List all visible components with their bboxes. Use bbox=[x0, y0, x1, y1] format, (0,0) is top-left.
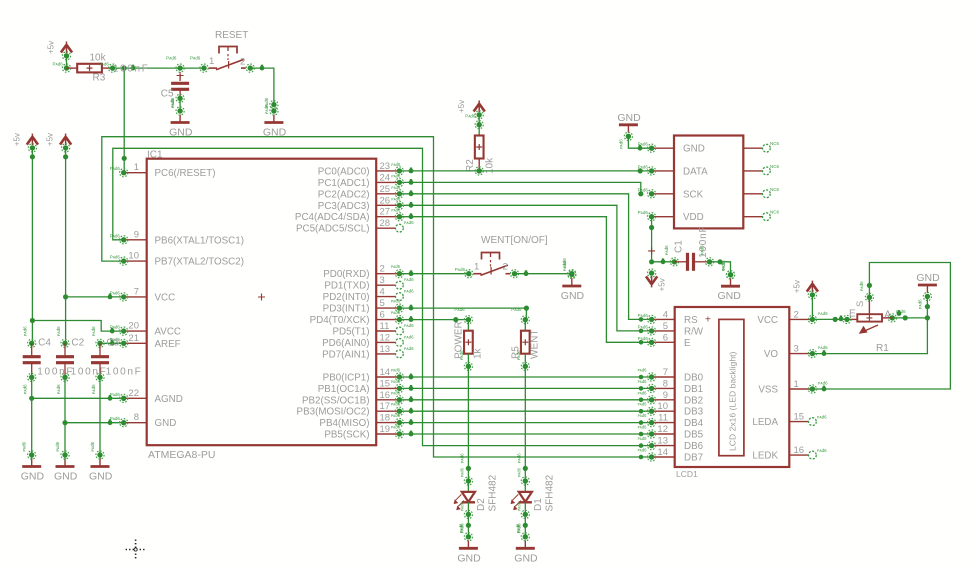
node MCU PB pin bbox=[391, 425, 404, 439]
LCD1 pin 4 RS bbox=[652, 309, 698, 326]
svg-text:24: 24 bbox=[380, 172, 391, 183]
svg-text:15: 15 bbox=[380, 378, 391, 389]
wire PD4 to R4 bbox=[399, 316, 468, 322]
LCD1 pin 3 VO bbox=[764, 344, 813, 361]
svg-text:Pᴀd6: Pᴀd6 bbox=[455, 267, 466, 272]
wire R5 to D1 bbox=[524, 366, 526, 468]
svg-text:PB0(ICP1): PB0(ICP1) bbox=[323, 373, 370, 384]
node LCD DB2 pin bbox=[638, 390, 656, 404]
node GND pin bbox=[110, 416, 128, 427]
svg-text:1k: 1k bbox=[473, 347, 484, 359]
svg-text:10: 10 bbox=[657, 401, 668, 412]
svg-text:PB2(SS/OC1B): PB2(SS/OC1B) bbox=[302, 395, 370, 406]
svg-text:ᴘᴀd6: ᴘᴀd6 bbox=[664, 245, 669, 255]
node PC6 pin bbox=[110, 166, 128, 177]
IC1 pin 21 AREF bbox=[124, 333, 181, 350]
node wire end bbox=[264, 101, 278, 115]
wire PB to LCD DB1 bbox=[399, 385, 651, 391]
IC1 pin 12 PD6(AIN0) bbox=[322, 332, 399, 349]
LCD1 pin 6 E bbox=[652, 332, 691, 349]
resistor R3 10k bbox=[67, 53, 112, 84]
svg-text:ᴘᴀd6: ᴘᴀd6 bbox=[391, 185, 401, 190]
svg-text:S: S bbox=[855, 301, 866, 307]
svg-text:5: 5 bbox=[380, 298, 385, 309]
svg-text:1: 1 bbox=[474, 262, 479, 273]
svg-text:23: 23 bbox=[380, 161, 391, 172]
node C3 top pin bbox=[91, 326, 104, 347]
svg-text:AVCC: AVCC bbox=[155, 327, 182, 338]
svg-text:ᴘᴀd6: ᴘᴀd6 bbox=[404, 220, 414, 225]
wire C2 column down bbox=[62, 377, 67, 459]
node MCU PB pin bbox=[391, 413, 404, 427]
svg-text:ᴘᴀd6: ᴘᴀd6 bbox=[817, 448, 827, 453]
svg-text:ᴘᴀd6: ᴘᴀd6 bbox=[638, 413, 648, 418]
svg-text:PD0(RXD): PD0(RXD) bbox=[323, 269, 369, 280]
svg-text:7: 7 bbox=[663, 367, 668, 378]
IC1 pin 11 PD5(T1) bbox=[332, 321, 399, 338]
ground below C1 bbox=[718, 261, 742, 302]
sensor connector body (SHT humidity sensor header) bbox=[674, 136, 743, 229]
svg-text:RS: RS bbox=[684, 315, 698, 326]
node C5 top bbox=[166, 56, 184, 73]
svg-text:9: 9 bbox=[134, 229, 139, 240]
svg-text:GND: GND bbox=[155, 418, 177, 429]
IC1 pin 20 AVCC bbox=[124, 321, 181, 338]
wire VCC to trimmer E bbox=[812, 316, 857, 323]
svg-text:1: 1 bbox=[134, 162, 139, 173]
node LCD DB1 pin bbox=[638, 379, 656, 393]
node sensor VDD pin bbox=[638, 210, 656, 221]
LCD1 pin 13 DB6 bbox=[652, 436, 704, 453]
svg-text:ᴘᴀd6: ᴘᴀd6 bbox=[459, 453, 464, 463]
node R2 bottom pin bbox=[475, 167, 483, 175]
trimmer R1 bbox=[855, 297, 891, 354]
svg-text:Pᴀd6: Pᴀd6 bbox=[511, 307, 522, 312]
IC1 pin 26 PC3(ADC3) bbox=[318, 195, 400, 212]
svg-text:11: 11 bbox=[380, 321, 390, 332]
svg-text:DB3: DB3 bbox=[684, 407, 704, 418]
node AGND pin bbox=[110, 392, 128, 403]
svg-text:ᴘᴀd6: ᴘᴀd6 bbox=[818, 345, 828, 350]
svg-text:PB6(XTAL1/TOSC1): PB6(XTAL1/TOSC1) bbox=[155, 235, 244, 246]
node AREF pin bbox=[110, 337, 128, 348]
svg-text:DATA: DATA bbox=[683, 166, 708, 177]
svg-text:ᴘᴀd6: ᴘᴀd6 bbox=[55, 441, 60, 451]
node VCC pin bbox=[110, 290, 128, 301]
svg-text:ᴘᴀd6: ᴘᴀd6 bbox=[23, 326, 28, 336]
ground below C5 bbox=[169, 97, 193, 138]
svg-text:AREF: AREF bbox=[155, 339, 181, 350]
svg-text:ᴘᴀd6: ᴘᴀd6 bbox=[90, 441, 95, 451]
IC1 pin 2 PD0(RXD) bbox=[323, 264, 399, 281]
svg-text:ᴘᴀd6: ᴘᴀd6 bbox=[459, 350, 464, 360]
svg-text:PB4(MISO): PB4(MISO) bbox=[319, 418, 369, 429]
svg-text:GND: GND bbox=[718, 290, 742, 302]
+5V supply symbol (R2) bbox=[457, 100, 485, 119]
svg-text:ᴘᴀd6: ᴘᴀd6 bbox=[23, 384, 28, 394]
LCD1 pin 12 DB5 bbox=[652, 424, 704, 441]
+5V supply symbol (R3) bbox=[47, 41, 73, 60]
svg-text:NC6: NC6 bbox=[770, 210, 779, 215]
LCD1 pin 14 DB7 bbox=[652, 447, 703, 464]
svg-text:LCD 2x16 (LED backlight): LCD 2x16 (LED backlight) bbox=[728, 352, 738, 451]
IC1 pin 5 PD3(INT1) bbox=[323, 298, 400, 315]
node LCD DB7 pin bbox=[638, 448, 656, 462]
resistor R2 10k bbox=[465, 136, 496, 175]
wire +5v rail A bbox=[30, 148, 35, 344]
IC1 pin 8 GND bbox=[124, 412, 177, 429]
svg-text:SFH482: SFH482 bbox=[487, 474, 498, 511]
wire PB to LCD DB5 bbox=[399, 431, 651, 437]
wire VCC tap bbox=[66, 294, 124, 300]
svg-text:ᴘᴀd6: ᴘᴀd6 bbox=[459, 467, 464, 477]
node LCD LEDA NC bbox=[809, 415, 828, 426]
svg-text:VO: VO bbox=[764, 349, 779, 360]
svg-text:ᴘᴀd6: ᴘᴀd6 bbox=[859, 281, 864, 291]
svg-text:C5: C5 bbox=[161, 89, 174, 100]
IC1 pin 3 PD1(TXD) bbox=[324, 275, 399, 292]
svg-text:E: E bbox=[684, 338, 691, 349]
svg-text:11: 11 bbox=[658, 413, 668, 424]
node trimmer A pin bbox=[888, 309, 906, 322]
resistor R4 POWER 1k bbox=[454, 307, 484, 366]
node LCD DB5 pin bbox=[638, 425, 656, 439]
+5V supply symbol (rail B) bbox=[46, 133, 72, 152]
svg-text:VSS: VSS bbox=[758, 385, 778, 396]
IC1 pin 6 PD4(T0/XCK) bbox=[310, 310, 400, 327]
svg-text:1: 1 bbox=[209, 56, 214, 67]
svg-text:ᴘᴀd6: ᴘᴀd6 bbox=[404, 289, 414, 294]
svg-text:+5v: +5v bbox=[457, 100, 466, 113]
junction AVCC tap bbox=[30, 318, 35, 323]
node C2 bottom pin bbox=[56, 373, 69, 394]
svg-text:ᴘᴀd6: ᴘᴀd6 bbox=[721, 261, 726, 271]
IC1 pin 24 PC1(ADC1) bbox=[318, 172, 400, 189]
node C2 top pin bbox=[56, 326, 69, 347]
wire PC3 to LCD R/W bbox=[399, 202, 651, 331]
svg-text:ᴘᴀd6: ᴘᴀd6 bbox=[391, 162, 401, 167]
svg-text:ᴘᴀd6: ᴘᴀd6 bbox=[917, 299, 922, 309]
svg-text:26: 26 bbox=[380, 195, 391, 206]
sensor pin VDD NC stub bbox=[743, 210, 779, 221]
sensor pin SCK bbox=[652, 189, 704, 200]
svg-text:PB1(OC1A): PB1(OC1A) bbox=[318, 384, 370, 395]
svg-text:ᴘᴀd6: ᴘᴀd6 bbox=[638, 425, 648, 430]
svg-text:GND: GND bbox=[617, 112, 641, 124]
IC1 pin 4 PD2(INT0) bbox=[323, 287, 400, 304]
node PD1 NC bbox=[396, 277, 415, 289]
svg-text:SFH482: SFH482 bbox=[544, 474, 555, 511]
node trimmer S pin bbox=[859, 281, 874, 301]
svg-text:ᴘᴀd6: ᴘᴀd6 bbox=[391, 379, 401, 384]
svg-text:GND: GND bbox=[916, 272, 940, 284]
wire PC2 to LCD RS bbox=[399, 190, 651, 319]
svg-text:21: 21 bbox=[128, 333, 139, 344]
svg-text:ᴘᴀd6: ᴘᴀd6 bbox=[404, 346, 414, 351]
node LCD VCC pin bbox=[808, 311, 828, 324]
node PD2 NC bbox=[396, 289, 415, 301]
ground below C2 bbox=[54, 441, 78, 482]
wire VDD down bbox=[648, 217, 655, 262]
svg-text:100nF: 100nF bbox=[113, 63, 150, 74]
svg-text:Pᴀd6: Pᴀd6 bbox=[110, 325, 121, 330]
wire GND row bbox=[65, 419, 124, 425]
junction VDD/C1/+5v bbox=[649, 259, 654, 264]
wire PB to LCD DB2 bbox=[399, 396, 651, 402]
node WENT pin 2 bbox=[510, 270, 528, 278]
svg-text:PC2(ADC2): PC2(ADC2) bbox=[318, 189, 370, 200]
+5V supply symbol (LCD VCC) bbox=[792, 280, 818, 299]
svg-text:2: 2 bbox=[503, 262, 508, 273]
capacitor C5 100nF bbox=[113, 63, 189, 99]
wire R4 to D2 bbox=[467, 366, 469, 468]
svg-text:DB6: DB6 bbox=[684, 441, 704, 452]
svg-text:ᴘᴀd6: ᴘᴀd6 bbox=[516, 453, 521, 463]
svg-text:19: 19 bbox=[380, 424, 391, 435]
svg-text:4: 4 bbox=[380, 287, 385, 298]
svg-text:PC5(ADC5/SCL): PC5(ADC5/SCL) bbox=[296, 224, 370, 235]
svg-text:PD3(INT1): PD3(INT1) bbox=[323, 304, 370, 315]
ground below WENT bbox=[561, 261, 585, 302]
node R3 left pin bbox=[53, 62, 71, 73]
svg-text:R1: R1 bbox=[876, 343, 889, 354]
ground below D2 bbox=[457, 523, 481, 564]
svg-text:14: 14 bbox=[657, 447, 668, 458]
wire PB to LCD DB3 bbox=[399, 408, 651, 414]
node sensor DATA pin bbox=[638, 164, 656, 175]
node LCD DB0 pin bbox=[638, 368, 656, 382]
node trimmer E pin bbox=[843, 309, 856, 324]
svg-text:+5v: +5v bbox=[658, 278, 667, 291]
switch S2 WENT[ON/OF] bbox=[473, 235, 548, 275]
node MCU pin circle bbox=[391, 185, 403, 198]
IC1 pin 1 PC6(/RESET) bbox=[124, 162, 216, 179]
svg-text:ᴘᴀd6: ᴘᴀd6 bbox=[638, 402, 648, 407]
svg-text:DB0: DB0 bbox=[684, 373, 704, 384]
wire AVCC tap bbox=[32, 321, 123, 334]
node MCU PB pin bbox=[391, 368, 404, 382]
node R3 right pin bbox=[99, 62, 117, 73]
svg-text:GND: GND bbox=[54, 471, 78, 483]
svg-text:+5v: +5v bbox=[12, 133, 21, 146]
wire VO to junction bbox=[812, 318, 927, 356]
IC1 pin 9 PB6(XTAL1/TOSC1) bbox=[124, 229, 244, 246]
ground below D1 bbox=[514, 523, 538, 564]
svg-text:NC6: NC6 bbox=[770, 164, 779, 169]
IC1 pin 10 PB7(XTAL2/TOSC2) bbox=[124, 251, 244, 268]
svg-text:2: 2 bbox=[794, 309, 799, 320]
svg-text:E: E bbox=[849, 309, 856, 320]
svg-text:ᴘᴀd6: ᴘᴀd6 bbox=[391, 208, 401, 213]
svg-text:ᴘᴀd6: ᴘᴀd6 bbox=[391, 425, 401, 430]
svg-text:ᴘᴀd6: ᴘᴀd6 bbox=[391, 173, 401, 178]
svg-text:Pᴀd6: Pᴀd6 bbox=[110, 290, 121, 295]
svg-text:3: 3 bbox=[794, 344, 799, 355]
wire PC4 to LCD E bbox=[399, 213, 651, 342]
svg-text:2: 2 bbox=[240, 57, 245, 68]
svg-text:Pᴀd6: Pᴀd6 bbox=[110, 255, 121, 260]
svg-text:PD1(TXD): PD1(TXD) bbox=[324, 281, 369, 292]
svg-text:17: 17 bbox=[380, 401, 391, 412]
switch S1 RESET bbox=[209, 30, 249, 70]
wire PC6 vertical bbox=[123, 68, 125, 173]
svg-text:ᴘᴀd6: ᴘᴀd6 bbox=[264, 97, 269, 107]
svg-text:ᴘᴀd6: ᴘᴀd6 bbox=[638, 390, 648, 395]
origin cross mark bbox=[126, 540, 146, 560]
svg-text:LCD1: LCD1 bbox=[676, 469, 698, 479]
node MCU pin circle bbox=[391, 162, 403, 175]
svg-text:ᴘᴀd6: ᴘᴀd6 bbox=[391, 310, 401, 315]
node R5 bottom pin bbox=[516, 350, 529, 370]
node LCD DB3 pin bbox=[638, 402, 656, 416]
svg-text:ᴘᴀd6: ᴘᴀd6 bbox=[170, 97, 175, 107]
node LCD RS pin bbox=[638, 313, 656, 324]
svg-text:ᴘᴀd6: ᴘᴀd6 bbox=[404, 334, 414, 339]
svg-text:ᴘᴀd6: ᴘᴀd6 bbox=[22, 441, 27, 451]
svg-text:ᴘᴀd6: ᴘᴀd6 bbox=[56, 384, 61, 394]
svg-text:13: 13 bbox=[657, 436, 668, 447]
svg-text:ᴘᴀd6: ᴘᴀd6 bbox=[515, 523, 520, 533]
svg-text:ᴘᴀd6: ᴘᴀd6 bbox=[91, 326, 96, 336]
svg-text:DB7: DB7 bbox=[684, 453, 703, 464]
wire RESET pin2 to GND bbox=[250, 68, 274, 105]
LCD1 pin 5 R/W bbox=[652, 321, 704, 338]
node MCU PB pin bbox=[391, 379, 404, 393]
svg-text:16: 16 bbox=[380, 390, 391, 401]
LCD1 pin 10 DB3 bbox=[652, 401, 704, 418]
svg-text:ᴘᴀd6: ᴘᴀd6 bbox=[638, 379, 648, 384]
capacitor C1 100nF bbox=[674, 226, 710, 271]
resistor R5 WENT bbox=[511, 307, 541, 366]
LCD1 pin 16 LEDK bbox=[752, 445, 812, 462]
wire C5 to GND bbox=[179, 98, 181, 110]
svg-text:DB1: DB1 bbox=[684, 384, 703, 395]
svg-text:Pᴀd6: Pᴀd6 bbox=[638, 142, 649, 147]
ground below C3 bbox=[89, 441, 113, 482]
LED D2 SFH482 bbox=[454, 453, 498, 537]
svg-text:Pᴀd6: Pᴀd6 bbox=[638, 187, 649, 192]
wire R3 to RESET net bbox=[112, 65, 205, 71]
wire C1 left bbox=[652, 258, 675, 264]
svg-text:LEDK: LEDK bbox=[752, 451, 778, 462]
node PD4 pin bbox=[391, 310, 404, 324]
svg-text:ᴘᴀd6: ᴘᴀd6 bbox=[700, 245, 705, 255]
node C3 bottom pin bbox=[91, 373, 104, 394]
LCD1 pin 7 DB0 bbox=[652, 367, 704, 384]
node LCD VO pin bbox=[808, 345, 828, 358]
svg-text:WENT[ON/OF]: WENT[ON/OF] bbox=[481, 235, 548, 246]
sensor pin DATA NC stub bbox=[743, 164, 779, 175]
svg-text:Pᴀd6: Pᴀd6 bbox=[638, 164, 649, 169]
svg-text:Pᴀd6: Pᴀd6 bbox=[638, 324, 649, 329]
svg-text:ᴘᴀd6: ᴘᴀd6 bbox=[56, 326, 61, 336]
svg-text:GND: GND bbox=[457, 552, 481, 564]
svg-text:Pᴀd6: Pᴀd6 bbox=[166, 56, 177, 61]
node MCU pin circle bbox=[391, 208, 403, 221]
svg-text:GND: GND bbox=[561, 290, 585, 302]
IC1 pin 28 PC5(ADC5/SCL) bbox=[296, 218, 399, 235]
svg-text:PD2(INT0): PD2(INT0) bbox=[323, 292, 370, 303]
svg-text:ᴘᴀd6: ᴘᴀd6 bbox=[391, 299, 401, 304]
svg-text:GND: GND bbox=[514, 552, 538, 564]
svg-text:6: 6 bbox=[380, 310, 385, 321]
wire C1 to GND bbox=[710, 259, 731, 275]
node R4 bottom pin bbox=[459, 350, 473, 370]
svg-text:20: 20 bbox=[128, 321, 139, 332]
svg-text:ᴘᴀd6: ᴘᴀd6 bbox=[91, 384, 96, 394]
node PD3 pin bbox=[391, 299, 404, 313]
svg-text:R/W: R/W bbox=[684, 326, 704, 337]
svg-text:Pᴀd6: Pᴀd6 bbox=[638, 313, 649, 318]
svg-text:+5v: +5v bbox=[47, 41, 56, 54]
wire PD3 to R5 bbox=[399, 305, 529, 320]
wire PC1 to sensor SCK bbox=[399, 179, 643, 196]
sensor pin GND bbox=[652, 144, 705, 155]
ground above sensor bbox=[617, 112, 641, 149]
svg-text:Pᴀd6: Pᴀd6 bbox=[110, 233, 121, 238]
svg-text:Pᴀd6: Pᴀd6 bbox=[110, 392, 121, 397]
node sensor GND pin bbox=[638, 142, 656, 153]
svg-text:VCC: VCC bbox=[155, 292, 176, 303]
node C1 right pin bbox=[700, 245, 714, 266]
svg-text:15: 15 bbox=[794, 412, 805, 423]
LCD1 pin 1 VSS bbox=[758, 379, 812, 396]
IC1 pin 18 PB4(MISO) bbox=[319, 413, 399, 430]
junction R3/PC6 bbox=[122, 66, 127, 71]
svg-text:13: 13 bbox=[380, 344, 391, 355]
node R2 top pin bbox=[465, 114, 483, 129]
svg-text:VDD: VDD bbox=[683, 212, 704, 223]
IC1 pin 23 PC0(ADC0) bbox=[318, 161, 400, 178]
IC1 pin 13 PD7(AIN1) bbox=[322, 344, 399, 361]
svg-text:16: 16 bbox=[794, 445, 805, 456]
svg-text:PD4(T0/XCK): PD4(T0/XCK) bbox=[310, 315, 370, 326]
wire S wiper to VSS bbox=[812, 263, 950, 392]
svg-text:ᴘᴀd6: ᴘᴀd6 bbox=[516, 467, 521, 477]
svg-text:ᴘᴀd6: ᴘᴀd6 bbox=[818, 311, 828, 316]
svg-text:ᴘᴀd6: ᴘᴀd6 bbox=[391, 390, 401, 395]
svg-text:C2: C2 bbox=[71, 338, 84, 349]
svg-text:PC6(/RESET): PC6(/RESET) bbox=[155, 168, 216, 179]
LCD1 pin 11 DB4 bbox=[652, 413, 704, 430]
junction DATA label bbox=[638, 168, 643, 173]
LCD1 pin 15 LEDA bbox=[752, 412, 812, 429]
svg-text:25: 25 bbox=[380, 184, 391, 195]
svg-text:GND: GND bbox=[683, 144, 705, 155]
svg-text:SCK: SCK bbox=[683, 189, 704, 200]
node MCU pin circle bbox=[391, 173, 403, 186]
svg-text:Pᴀd6: Pᴀd6 bbox=[638, 210, 649, 215]
node LCD DB6 pin bbox=[638, 436, 656, 450]
capacitor C3 100nF bbox=[91, 338, 142, 378]
svg-text:8: 8 bbox=[663, 378, 668, 389]
wire AREF to C3 bbox=[100, 340, 124, 346]
node AVCC pin bbox=[110, 325, 128, 336]
svg-text:C3: C3 bbox=[106, 338, 119, 349]
capacitor C4 100nF bbox=[23, 338, 74, 378]
IC1 pin 17 PB3(MOSI/OC2) bbox=[297, 401, 400, 418]
svg-text:ᴘᴀd6: ᴘᴀd6 bbox=[458, 523, 463, 533]
wire PB6 to DB6 (inner frame) bbox=[113, 148, 652, 445]
svg-text:+5v: +5v bbox=[792, 280, 801, 293]
svg-text:Pᴀd6: Pᴀd6 bbox=[99, 62, 110, 67]
node LCD R/W pin bbox=[638, 324, 656, 335]
svg-text:ᴘᴀd6: ᴘᴀd6 bbox=[391, 196, 401, 201]
svg-text:PD5(T1): PD5(T1) bbox=[332, 327, 369, 338]
wire WENT pin2 to GND bbox=[515, 273, 572, 275]
+5V supply below VDD (arrow down) bbox=[646, 269, 667, 291]
wire PC0 to sensor DATA bbox=[399, 168, 651, 174]
